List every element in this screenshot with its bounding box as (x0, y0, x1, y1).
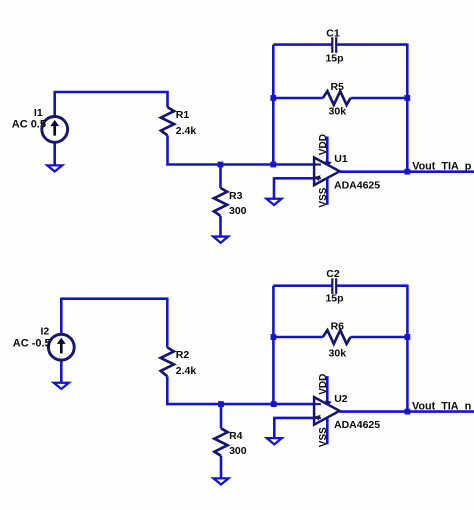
svg-text:VDD: VDD (318, 374, 329, 395)
svg-text:30k: 30k (329, 347, 347, 359)
svg-text:VSS: VSS (318, 187, 329, 207)
svg-text:ADA4625: ADA4625 (334, 180, 380, 192)
svg-text:U1: U1 (334, 153, 348, 165)
svg-text:15p: 15p (325, 293, 343, 305)
svg-text:15p: 15p (325, 52, 343, 64)
svg-text:Vout_TIA_p: Vout_TIA_p (412, 161, 472, 173)
svg-text:ADA4625: ADA4625 (334, 419, 380, 431)
svg-text:VSS: VSS (318, 427, 329, 447)
svg-text:30k: 30k (329, 106, 347, 118)
svg-text:AC -0.5: AC -0.5 (13, 337, 51, 349)
svg-text:I1: I1 (34, 108, 43, 119)
svg-text:U2: U2 (334, 393, 348, 405)
svg-text:C2: C2 (326, 268, 340, 280)
svg-text:300: 300 (229, 205, 247, 217)
svg-text:R4: R4 (229, 430, 243, 442)
svg-text:R1: R1 (176, 109, 190, 121)
svg-text:R3: R3 (229, 190, 243, 202)
svg-text:2.4k: 2.4k (176, 365, 197, 377)
svg-text:R6: R6 (331, 321, 345, 333)
svg-text:C1: C1 (326, 28, 340, 40)
svg-text:R2: R2 (176, 349, 190, 361)
svg-text:I2: I2 (41, 327, 50, 338)
svg-text:R5: R5 (330, 81, 344, 93)
svg-text:Vout_TIA_n: Vout_TIA_n (412, 400, 471, 412)
svg-text:VDD: VDD (318, 134, 329, 155)
svg-text:300: 300 (229, 445, 247, 457)
svg-text:AC 0.5: AC 0.5 (12, 118, 46, 130)
svg-text:2.4k: 2.4k (176, 125, 197, 137)
